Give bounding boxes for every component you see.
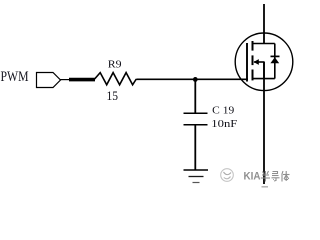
channel segment source bbox=[252, 70, 254, 81]
wire junction to capacitor bbox=[194, 79, 196, 113]
port PWM connector bbox=[37, 73, 61, 88]
channel segment body bbox=[252, 55, 254, 65]
capacitor C19 bbox=[184, 113, 208, 124]
body diode triangle bbox=[270, 57, 279, 63]
body arrow head bbox=[254, 59, 259, 65]
transistor Q1 (N-MOSFET) bbox=[235, 33, 293, 91]
wire drain up bbox=[263, 4, 265, 44]
junction node bbox=[193, 77, 198, 82]
svg-text:15: 15 bbox=[107, 88, 119, 103]
wire source down bbox=[263, 62, 265, 184]
svg-text:KIA: KIA bbox=[244, 171, 261, 183]
wire capacitor to ground bbox=[194, 125, 196, 170]
svg-text:PWM: PWM bbox=[1, 69, 29, 85]
watermark underline dash bbox=[262, 186, 269, 188]
svg-text:10nF: 10nF bbox=[211, 118, 237, 130]
body circle bbox=[235, 33, 293, 91]
resistor R9 bbox=[95, 73, 137, 85]
body arrow wire bbox=[254, 61, 265, 63]
watermark logo bbox=[221, 169, 234, 182]
watermark glyph ti bbox=[282, 171, 290, 182]
watermark glyph ban bbox=[261, 171, 270, 182]
ground bbox=[184, 170, 209, 183]
svg-text:R9: R9 bbox=[108, 59, 122, 71]
gate bar bbox=[246, 43, 248, 82]
watermark glyph dao bbox=[272, 172, 280, 182]
drain lead bbox=[253, 43, 275, 45]
body diode wire bbox=[274, 44, 276, 79]
source lead bbox=[253, 78, 275, 80]
wire from PWM port bbox=[61, 79, 71, 81]
body diode bar bbox=[271, 55, 280, 57]
svg-text:C 19: C 19 bbox=[212, 106, 234, 117]
wire resistor to gate bbox=[136, 78, 248, 80]
source vertical inside bbox=[263, 62, 265, 79]
channel segment drain bbox=[252, 41, 254, 51]
wire thick stub bbox=[69, 78, 95, 82]
